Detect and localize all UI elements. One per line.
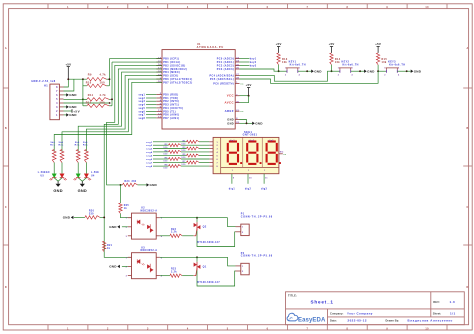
svg-text:PC3 (ADC3): PC3 (ADC3)	[217, 68, 234, 71]
svg-text:U5: U5	[41, 176, 45, 178]
svg-text:2: 2	[56, 110, 58, 113]
svg-text:PC5 (ADC5/SCL): PC5 (ADC5/SCL)	[210, 78, 234, 81]
wire AVCC	[240, 96, 249, 103]
resistor R9 4.7k	[87, 78, 107, 81]
svg-text:R11: R11	[88, 94, 94, 97]
wire vertical 82.9 rail to R12	[82, 79, 84, 106]
ground LED pair2	[81, 181, 83, 183]
ground flag U1	[252, 122, 255, 125]
svg-text:+5V: +5V	[329, 42, 335, 46]
svg-text:9: 9	[386, 327, 388, 330]
display digit 3	[268, 140, 276, 142]
node rail-H1pin8	[67, 78, 69, 80]
svg-text:2.2k: 2.2k	[171, 232, 177, 234]
svg-text:dig1: dig1	[230, 140, 235, 142]
svg-text:seg6: seg6	[146, 159, 153, 161]
svg-text:5: 5	[227, 327, 229, 330]
svg-text:GND: GND	[314, 69, 322, 73]
LED U4 red	[85, 163, 87, 174]
svg-text:VCC: VCC	[227, 94, 234, 98]
svg-text:1: 1	[285, 68, 286, 70]
wire opto U2 pin6 to P1	[160, 217, 228, 219]
svg-text:PD7 (AIN1): PD7 (AIN1)	[163, 117, 179, 120]
svg-text:Kit-6x6_TH: Kit-6x6_TH	[389, 64, 405, 67]
svg-text:Res: Res	[58, 145, 63, 147]
svg-text:GND: GND	[69, 93, 77, 97]
svg-text:2: 2	[384, 74, 385, 76]
resistor R14 10k	[330, 53, 333, 65]
svg-text:9: 9	[386, 6, 388, 9]
svg-text:5: 5	[56, 98, 58, 101]
svg-text:seg5: seg5	[146, 156, 153, 158]
svg-text:A: A	[466, 47, 468, 50]
svg-text:seg3: seg3	[146, 149, 153, 151]
svg-text:R8: R8	[165, 165, 168, 167]
svg-text:dig2: dig2	[245, 188, 252, 190]
wire PB4 bus to R18	[78, 72, 162, 151]
svg-text:21: 21	[236, 110, 239, 112]
svg-text:dig3: dig3	[269, 140, 274, 142]
svg-text:R7: R7	[183, 161, 186, 163]
wire Q1 MT1 to P2 pin2	[197, 271, 236, 287]
svg-text:GND: GND	[69, 113, 77, 117]
svg-text:510: 510	[182, 164, 186, 166]
svg-text:MOC3052-A: MOC3052-A	[141, 249, 158, 252]
svg-text:Company:: Company:	[330, 311, 344, 315]
svg-text:CONN-TH_2P-P5.08: CONN-TH_2P-P5.08	[241, 216, 273, 219]
svg-text:dig2: dig2	[249, 140, 254, 142]
svg-text:4: 4	[56, 102, 58, 105]
svg-text:seg8: seg8	[146, 166, 153, 168]
svg-text:R1: R1	[183, 140, 186, 142]
ground flag H1 pin3	[64, 106, 67, 108]
svg-text:+5V: +5V	[375, 42, 381, 46]
op-amp U1 ATMEGA8A-PU body	[162, 50, 235, 129]
svg-text:GND: GND	[227, 118, 234, 121]
svg-text:100: 100	[100, 81, 106, 84]
resistor R19 5k6	[85, 150, 89, 163]
display NC pin	[279, 153, 283, 155]
svg-text:Res: Res	[75, 145, 80, 147]
wire R11R12 right bar to PB1	[109, 98, 112, 100]
svg-text:3: 3	[147, 6, 149, 9]
svg-text:GND: GND	[78, 188, 87, 193]
svg-text:HDR-F-2.54_1x8: HDR-F-2.54_1x8	[32, 80, 56, 83]
svg-text:Владислав Алексеенко: Владислав Алексеенко	[408, 319, 453, 323]
display left pins	[209, 141, 213, 143]
svg-text:Res: Res	[83, 145, 88, 147]
svg-text:R6: R6	[165, 158, 168, 160]
svg-text:R25: R25	[124, 205, 130, 207]
node KEY2	[331, 70, 333, 72]
svg-text:GND: GND	[367, 69, 375, 73]
svg-text:Kit-6x6_TH: Kit-6x6_TH	[290, 64, 306, 67]
wire R24 node to GND	[121, 184, 123, 186]
svg-text:+5V: +5V	[276, 42, 282, 46]
svg-text:20: 20	[236, 101, 239, 103]
+5V flag H1 pin2	[64, 110, 73, 112]
svg-text:27: 27	[236, 74, 239, 76]
connector H1 HDR-F-2.54_1x8	[50, 84, 60, 120]
resistor R23 2.2k	[160, 275, 170, 277]
wire PB5 bus to R19	[86, 76, 162, 152]
svg-text:PC1 (ADC1): PC1 (ADC1)	[217, 61, 234, 64]
ground flag R24	[147, 183, 150, 186]
svg-text:L-59EGC: L-59EGC	[38, 172, 50, 174]
resistor R21 1k	[103, 241, 106, 252]
resistor R24 330	[123, 183, 138, 186]
svg-text:seg7: seg7	[138, 115, 145, 117]
svg-text:8: 8	[346, 327, 348, 330]
svg-text:seg2: seg2	[146, 145, 153, 147]
svg-text:C: C	[466, 206, 468, 209]
svg-text:TITLE:: TITLE:	[288, 294, 297, 298]
display digit 2	[248, 140, 256, 142]
svg-text:Date:: Date:	[330, 319, 337, 323]
svg-text:10k: 10k	[335, 61, 340, 64]
ground flag U2 pin2	[122, 226, 128, 228]
border frame ticks top/bottom	[47, 4, 49, 9]
svg-text:1k: 1k	[124, 208, 128, 210]
svg-text:key3: key3	[250, 66, 257, 68]
wire PC4 to KEY2	[240, 71, 332, 81]
resistor R16 5k6	[52, 150, 56, 163]
wire R9R10 right bar to PB0	[106, 78, 109, 80]
LED U5 red	[61, 163, 63, 174]
resistor R10 100	[87, 84, 107, 87]
svg-text:key1: key1	[250, 59, 257, 61]
svg-text:seg4: seg4	[146, 151, 153, 154]
svg-text:330: 330	[132, 181, 137, 183]
svg-text:8: 8	[346, 6, 348, 9]
svg-text:10k: 10k	[382, 61, 387, 64]
svg-text:B: B	[5, 127, 7, 130]
ground flag KEY3	[411, 70, 414, 73]
svg-text:GNT-3631: GNT-3631	[243, 134, 258, 137]
svg-text:R12: R12	[86, 101, 92, 104]
svg-text:GND: GND	[227, 122, 234, 125]
svg-text:GND: GND	[414, 69, 422, 73]
svg-text:2: 2	[285, 74, 286, 76]
svg-text:2: 2	[107, 6, 109, 9]
svg-text:dig3: dig3	[261, 188, 268, 190]
EasyEDA logo	[287, 313, 298, 321]
svg-text:R20: R20	[89, 210, 95, 212]
title block	[286, 292, 465, 325]
svg-text:4: 4	[352, 73, 353, 76]
svg-text:H1: H1	[44, 84, 48, 87]
ground flag H1 pin6	[64, 94, 67, 96]
svg-text:seg8: seg8	[138, 118, 145, 120]
svg-text:key2: key2	[250, 62, 257, 64]
svg-text:28: 28	[236, 78, 239, 80]
svg-text:GND: GND	[109, 265, 117, 269]
svg-text:dig1: dig1	[229, 188, 236, 190]
node Q1 MT2	[196, 256, 198, 258]
svg-text:BT138-600E.127: BT138-600E.127	[197, 242, 220, 244]
svg-text:D: D	[5, 286, 7, 289]
net label key2	[240, 61, 250, 63]
resistor R15 10k	[376, 53, 379, 65]
svg-text:3: 3	[352, 68, 353, 70]
wire H1 pin7 up to rail	[64, 79, 74, 91]
svg-text:R22: R22	[171, 229, 177, 231]
svg-text:GND: GND	[53, 188, 62, 193]
svg-text:2.2k: 2.2k	[171, 272, 177, 274]
wire PC3 to KEY1	[240, 69, 279, 71]
node KEY1	[278, 70, 280, 72]
node Q2 MT2	[196, 217, 198, 219]
svg-text:BT138-600E.127: BT138-600E.127	[197, 282, 220, 284]
svg-text:MOC3052-A: MOC3052-A	[141, 210, 158, 213]
svg-text:Sheet_1: Sheet_1	[311, 300, 334, 305]
svg-text:4: 4	[398, 73, 399, 76]
resistor R11 4.7k	[87, 98, 109, 101]
svg-text:3: 3	[398, 68, 399, 70]
svg-text:1: 1	[67, 327, 69, 330]
svg-text:CONN-TH_2P-P5.08: CONN-TH_2P-P5.08	[241, 255, 273, 258]
svg-text:PB7 (XTAL2/TOSC2): PB7 (XTAL2/TOSC2)	[163, 81, 192, 84]
wire H1 pin5 row to R11	[64, 98, 87, 100]
svg-text:R10: R10	[86, 81, 92, 84]
svg-text:seg5: seg5	[138, 108, 145, 110]
svg-text:4: 4	[187, 6, 189, 9]
svg-text:A: A	[5, 47, 7, 50]
resistor R13 10k	[277, 53, 280, 65]
ground flag R20	[71, 216, 74, 219]
wire PB2 bus to R24 node	[107, 65, 162, 184]
svg-text:ATMEGA8A-PU: ATMEGA8A-PU	[197, 46, 225, 49]
wire PB3 bus long to opto U3	[104, 69, 162, 257]
LED U5 green	[53, 163, 55, 174]
svg-text:3: 3	[147, 327, 149, 330]
display bottom pins dig1 dig2 dig3	[231, 174, 233, 184]
svg-text:4: 4	[187, 327, 189, 330]
svg-text:+5V: +5V	[246, 83, 252, 87]
svg-text:8: 8	[56, 86, 58, 89]
svg-text:3: 3	[299, 68, 300, 70]
net label key3	[240, 65, 250, 67]
svg-text:510: 510	[164, 168, 168, 170]
U1 PD pins	[156, 94, 162, 96]
ground flag H1 pin1	[64, 114, 67, 116]
ground flag U3 pin2	[122, 265, 128, 267]
svg-text:+5V: +5V	[65, 62, 71, 66]
svg-text:6: 6	[267, 327, 269, 330]
node junction H1 pin5	[82, 98, 84, 100]
svg-text:seg2: seg2	[138, 98, 145, 100]
svg-text:12: 12	[158, 113, 161, 115]
svg-text:6: 6	[267, 6, 269, 9]
svg-text:10: 10	[425, 327, 429, 330]
resistor R22 2.2k	[160, 235, 170, 237]
wire VCC	[240, 95, 249, 97]
wire PB7 bus to R16	[54, 82, 162, 151]
U1 PB pins	[156, 58, 162, 60]
ground flag KEY1	[311, 70, 314, 73]
svg-text:nc: nc	[240, 111, 244, 113]
svg-text:seg1: seg1	[138, 95, 145, 97]
svg-text:22: 22	[236, 122, 239, 124]
svg-text:7: 7	[307, 327, 309, 330]
node R24/R25	[120, 184, 122, 186]
svg-text:100: 100	[100, 101, 106, 104]
svg-text:nc: nc	[240, 84, 244, 86]
svg-text:GND: GND	[109, 225, 117, 229]
svg-text:6: 6	[56, 94, 58, 97]
svg-text:seg1: seg1	[146, 142, 153, 144]
svg-text:AVCC: AVCC	[224, 101, 234, 105]
resistor R17 5k6	[60, 150, 64, 163]
wire +5V rail	[68, 78, 87, 80]
svg-text:U4: U4	[91, 175, 95, 178]
resistor R25 1k	[120, 185, 122, 203]
svg-text:23: 23	[236, 57, 239, 59]
resistor R20 330	[85, 216, 100, 219]
svg-text:GND: GND	[150, 183, 158, 187]
svg-text:GND: GND	[63, 216, 71, 220]
wire U1 GND pins	[240, 120, 247, 124]
border frame ticks left/right	[3, 87, 8, 89]
svg-text:Sheet:: Sheet:	[433, 311, 442, 315]
svg-text:R23: R23	[171, 269, 177, 271]
wire PB0 bus	[109, 58, 160, 60]
svg-text:24: 24	[236, 60, 239, 63]
LED U4 green	[77, 163, 79, 174]
svg-text:1: 1	[384, 68, 385, 70]
svg-text:3: 3	[56, 106, 58, 109]
svg-text:1: 1	[338, 68, 339, 70]
svg-text:1: 1	[56, 114, 58, 117]
svg-text:4: 4	[299, 73, 300, 76]
svg-text:510: 510	[164, 154, 168, 156]
svg-text:PC6 (RESET#): PC6 (RESET#)	[213, 83, 234, 86]
U1 PD net labels	[146, 94, 156, 96]
svg-text:4.7k: 4.7k	[100, 94, 107, 97]
svg-text:Res: Res	[50, 145, 55, 147]
svg-text:7: 7	[307, 6, 309, 9]
wire H1 pin4 row to R11R12 right bar	[64, 102, 110, 104]
display digit cell dividers	[242, 137, 244, 167]
svg-text:R3: R3	[183, 147, 186, 149]
node rail-vertical	[82, 78, 84, 80]
svg-text:2: 2	[338, 74, 339, 76]
svg-text:1.0: 1.0	[450, 300, 456, 304]
svg-text:2022-05-12: 2022-05-12	[348, 319, 367, 323]
svg-text:seg4: seg4	[138, 104, 145, 107]
svg-text:1/1: 1/1	[450, 311, 456, 315]
wire PB1 bus	[112, 61, 161, 63]
svg-text:B: B	[466, 127, 468, 130]
display digit 1	[229, 140, 237, 142]
svg-text:EasyEDA: EasyEDA	[298, 318, 326, 324]
wire opto U3 pin6 to P2	[160, 256, 228, 258]
transistor Q1 BT138-600E	[196, 257, 198, 262]
svg-text:Q2: Q2	[203, 226, 207, 229]
resistor R12 100	[87, 104, 109, 107]
svg-text:10: 10	[425, 6, 429, 9]
resistor R18 5k6	[76, 150, 80, 163]
ground flag KEY2	[364, 70, 367, 73]
svg-text:R21: R21	[107, 245, 113, 247]
svg-text:25: 25	[236, 64, 239, 66]
svg-text:R2: R2	[165, 144, 168, 146]
wire H1 pin8 to +5V rail	[64, 79, 69, 87]
svg-text:1: 1	[67, 6, 69, 9]
svg-text:Kit-6x6_TH: Kit-6x6_TH	[343, 64, 359, 67]
svg-text:D: D	[466, 286, 468, 289]
U1 PC pins	[235, 58, 239, 60]
svg-text:1k: 1k	[107, 248, 111, 250]
svg-text:2: 2	[107, 327, 109, 330]
wire PB6 bus to R17	[62, 79, 162, 151]
transistor Q2 BT138-600E	[196, 218, 198, 223]
svg-text:1: 1	[264, 170, 265, 172]
svg-text:GND: GND	[255, 122, 263, 126]
svg-text:R24: R24	[125, 180, 131, 183]
svg-text:1: 1	[232, 170, 233, 172]
svg-text:11: 11	[158, 110, 161, 112]
svg-text:10k: 10k	[282, 61, 287, 64]
svg-text:seg3: seg3	[138, 101, 145, 103]
node R20/R21	[103, 216, 105, 218]
svg-text:Q1: Q1	[203, 265, 207, 268]
svg-text:5: 5	[227, 6, 229, 9]
svg-text:Drawn By:: Drawn By:	[386, 319, 400, 323]
svg-text:AREF: AREF	[225, 109, 234, 113]
wire Q2 MT1 to P1 pin2	[197, 231, 236, 247]
node KEY3	[377, 70, 379, 72]
svg-text:R5: R5	[183, 154, 186, 156]
ground LED pair1	[57, 181, 59, 183]
svg-text:L-59E: L-59E	[91, 172, 99, 174]
svg-text:PC4 (ADC4/SDA): PC4 (ADC4/SDA)	[210, 74, 234, 77]
svg-text:1: 1	[248, 170, 249, 172]
svg-text:4.7k: 4.7k	[100, 74, 107, 77]
wire R25 to opto U2 pin1	[121, 214, 132, 218]
svg-text:REV:: REV:	[433, 300, 439, 304]
svg-text:seg6: seg6	[138, 111, 145, 113]
svg-text:Your Company: Your Company	[347, 311, 373, 315]
svg-text:7: 7	[56, 90, 58, 93]
wire PC5 to KEY3	[240, 71, 379, 83]
svg-text:330: 330	[89, 213, 94, 215]
svg-text:seg7: seg7	[146, 162, 153, 164]
svg-text:R9: R9	[88, 74, 92, 77]
svg-text:13: 13	[158, 117, 161, 119]
svg-text:C: C	[5, 206, 7, 209]
net label key1	[240, 58, 250, 60]
svg-text:26: 26	[236, 68, 239, 70]
